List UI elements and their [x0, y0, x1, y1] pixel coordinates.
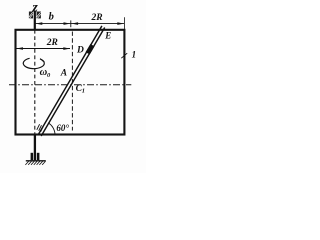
svg-text:2R: 2R: [91, 13, 103, 23]
svg-text:60°: 60°: [56, 123, 69, 133]
svg-text:1: 1: [132, 50, 137, 60]
svg-text:D: D: [76, 45, 84, 55]
svg-text:2R: 2R: [46, 38, 58, 48]
svg-text:b: b: [49, 12, 54, 23]
svg-text:E: E: [104, 31, 111, 41]
svg-text:A: A: [60, 69, 67, 79]
svg-text:z: z: [31, 0, 38, 15]
svg-text:1: 1: [82, 87, 85, 94]
